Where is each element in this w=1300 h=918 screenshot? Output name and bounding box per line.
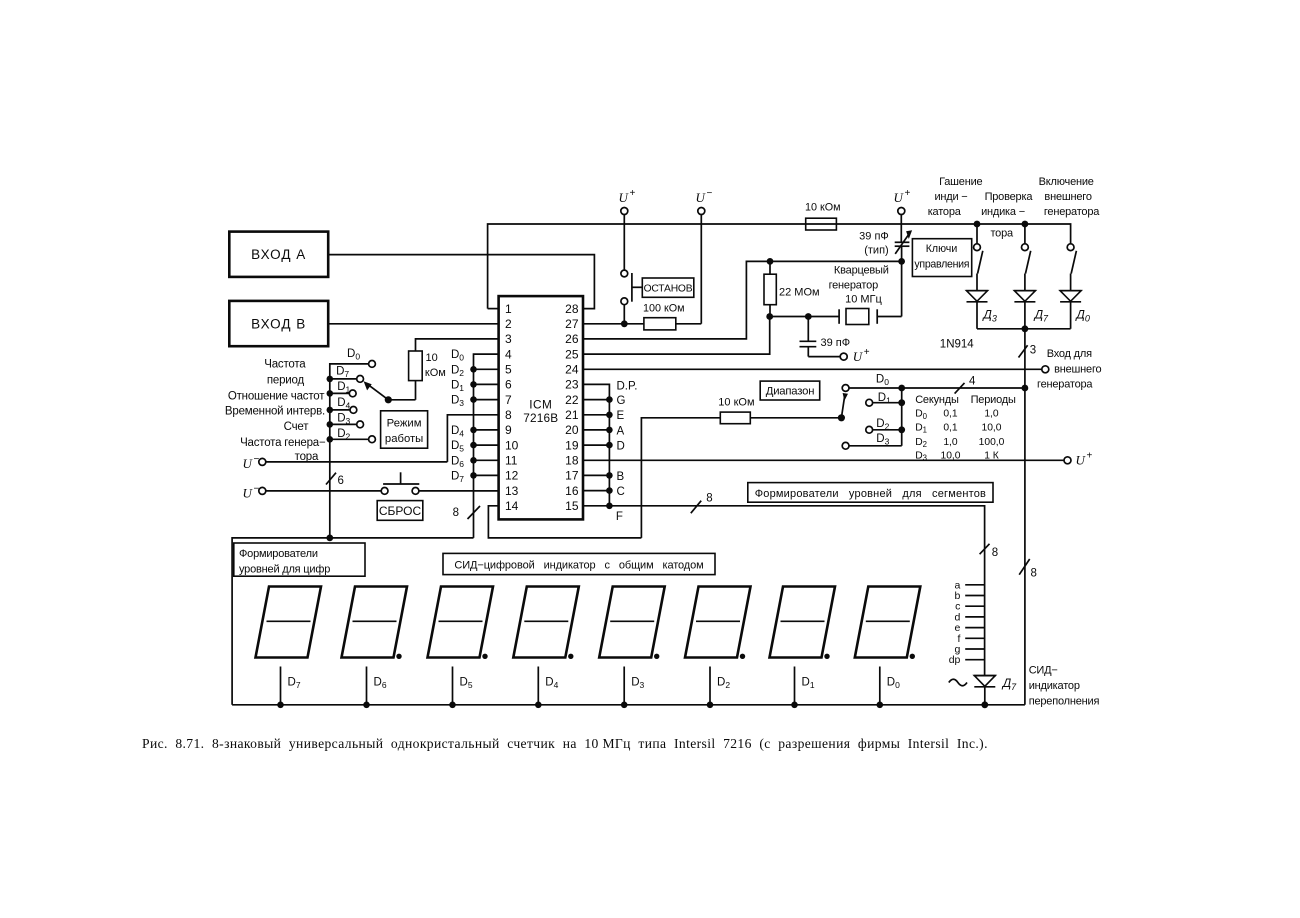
terminal U+ oscillator xyxy=(840,353,847,360)
key switch 1 xyxy=(976,224,978,244)
wire crystal right riser xyxy=(901,247,903,317)
svg-text:D3: D3 xyxy=(915,451,927,463)
svg-text:Д3: Д3 xyxy=(981,308,996,324)
svg-text:U: U xyxy=(243,456,254,471)
svg-text:СБРОС: СБРОС xyxy=(379,504,422,518)
svg-text:D3: D3 xyxy=(337,412,350,426)
svg-text:1,0: 1,0 xyxy=(943,437,958,448)
svg-text:F: F xyxy=(616,511,623,523)
switch OSTANOV contacts xyxy=(621,270,628,277)
wire pin 7 xyxy=(474,399,499,401)
wire lower node xyxy=(770,316,839,318)
svg-text:D0: D0 xyxy=(876,373,889,387)
svg-text:генератор: генератор xyxy=(829,279,879,291)
svg-text:10,0: 10,0 xyxy=(981,422,1001,433)
wire U- to pin 8 riser xyxy=(266,461,448,463)
svg-text:D1: D1 xyxy=(451,379,464,393)
svg-text:D2: D2 xyxy=(717,677,730,691)
switch SBROS actuator xyxy=(383,483,419,485)
svg-text:ВХОД В: ВХОД В xyxy=(251,317,306,332)
svg-text:Секунды: Секунды xyxy=(915,394,959,406)
svg-text:14: 14 xyxy=(505,499,519,513)
svg-text:15: 15 xyxy=(565,499,579,513)
svg-text:1,0: 1,0 xyxy=(984,409,999,420)
svg-text:D0: D0 xyxy=(915,409,927,421)
label box LED indicator xyxy=(443,553,715,574)
svg-text:−: − xyxy=(707,188,713,199)
mode wiper arrow to D7 xyxy=(367,384,389,400)
svg-text:8: 8 xyxy=(1031,568,1037,580)
svg-text:Частота генера−: Частота генера− xyxy=(240,437,326,449)
switch SBROS contacts xyxy=(381,488,388,495)
display digit D3 xyxy=(599,587,665,709)
range contact D3 xyxy=(842,442,849,449)
svg-text:100 кОм: 100 кОм xyxy=(643,303,685,315)
svg-text:D5: D5 xyxy=(460,677,473,691)
svg-text:18: 18 xyxy=(565,454,579,468)
diode D0 xyxy=(1060,290,1082,292)
label box SBROS xyxy=(377,501,423,521)
svg-text:U: U xyxy=(243,485,254,500)
svg-text:Ключи: Ключи xyxy=(926,243,958,255)
svg-text:U: U xyxy=(696,190,707,205)
display common rail xyxy=(232,704,1025,706)
wire pin 11 xyxy=(474,459,499,461)
svg-text:20: 20 xyxy=(565,423,579,437)
wire U- stem xyxy=(700,215,702,324)
svg-text:Проверка: Проверка xyxy=(985,191,1034,203)
svg-text:(тип): (тип) xyxy=(864,245,888,257)
display digit D0 xyxy=(855,587,921,709)
svg-text:D1: D1 xyxy=(802,677,815,691)
svg-text:D: D xyxy=(617,441,625,453)
svg-text:6: 6 xyxy=(338,475,344,487)
wire pin 13 from SBROS xyxy=(419,490,499,492)
svg-text:8: 8 xyxy=(992,547,998,559)
terminal U+ right xyxy=(1064,457,1071,464)
svg-text:U: U xyxy=(1076,453,1087,468)
svg-text:Гашение: Гашение xyxy=(939,176,982,188)
wire external gen bus down xyxy=(1024,329,1026,705)
wire D0 row to ext bus xyxy=(902,387,1025,389)
mode switch common bus xyxy=(330,364,372,538)
display digit D2 xyxy=(685,587,751,709)
range contact D1 xyxy=(866,399,873,406)
digit bus D0-D7 left of IC xyxy=(474,354,499,538)
svg-text:1: 1 xyxy=(505,302,512,316)
range wiper arrow to D0 xyxy=(838,414,845,421)
svg-text:Д0: Д0 xyxy=(1074,308,1089,324)
wire pin 19 xyxy=(583,444,609,446)
svg-text:+: + xyxy=(905,188,911,199)
IC pin numbers left 1-14 xyxy=(505,302,519,513)
slash 8 on ext bus xyxy=(1019,559,1029,575)
display digit D7 xyxy=(256,587,322,709)
wire pin 24 to external generator terminal xyxy=(583,368,1042,370)
label box Diapazon xyxy=(760,381,820,400)
wire pin 17 xyxy=(583,474,609,476)
svg-text:индика −: индика − xyxy=(981,206,1025,218)
svg-text:1N914: 1N914 xyxy=(940,339,974,351)
input block VXOD A xyxy=(229,232,328,277)
labels keys header column 1 xyxy=(928,176,983,218)
svg-text:U: U xyxy=(619,190,630,205)
svg-text:Кварцевый: Кварцевый xyxy=(834,264,889,276)
svg-text:D4: D4 xyxy=(451,425,464,439)
svg-text:Частота: Частота xyxy=(264,358,306,370)
svg-text:D.P.: D.P. xyxy=(617,381,638,393)
svg-text:D7: D7 xyxy=(336,366,349,380)
svg-text:Отношение частот: Отношение частот xyxy=(228,390,325,402)
slash 4 xyxy=(955,383,965,394)
slash 6 on mode bus xyxy=(326,473,336,485)
svg-text:39 пФ: 39 пФ xyxy=(859,231,889,243)
svg-text:работы: работы xyxy=(385,433,423,445)
svg-text:0,1: 0,1 xyxy=(943,422,958,433)
svg-text:D3: D3 xyxy=(631,677,644,691)
svg-text:генератора: генератора xyxy=(1044,206,1100,218)
resistor 10 kOm mode xyxy=(409,351,423,381)
svg-text:D0: D0 xyxy=(887,677,900,691)
svg-text:10,0: 10,0 xyxy=(940,451,960,462)
wire VXOD A to pin 28 xyxy=(328,255,594,309)
svg-text:D0: D0 xyxy=(451,349,464,363)
svg-text:инди −: инди − xyxy=(934,191,967,203)
svg-text:тора: тора xyxy=(990,228,1014,240)
svg-text:уровней для цифр: уровней для цифр xyxy=(239,563,330,575)
svg-text:D2: D2 xyxy=(915,437,927,449)
slash 8 on F line xyxy=(691,501,701,514)
svg-text:D3: D3 xyxy=(876,433,889,447)
svg-text:B: B xyxy=(617,471,625,483)
key switch 3 xyxy=(1067,244,1074,251)
junction 22M top xyxy=(767,258,774,265)
svg-text:кОм: кОм xyxy=(425,367,446,379)
svg-text:2: 2 xyxy=(505,317,512,331)
wire pin 16 xyxy=(583,490,609,492)
wire U- to SBROS xyxy=(266,490,381,492)
svg-text:100,0: 100,0 xyxy=(979,437,1005,448)
svg-text:D5: D5 xyxy=(451,440,464,454)
labels overflow indicator xyxy=(1029,665,1100,708)
svg-text:Д7: Д7 xyxy=(1001,676,1017,692)
wire diode bottom rail xyxy=(977,328,1071,330)
svg-text:внешнего: внешнего xyxy=(1044,191,1091,203)
wire pin 20 xyxy=(583,429,609,431)
svg-text:Периоды: Периоды xyxy=(971,394,1016,406)
svg-text:период: период xyxy=(267,374,305,386)
labels D lines left of IC xyxy=(451,349,464,484)
junction mode bus to digit line xyxy=(326,535,333,542)
svg-text:катора: катора xyxy=(928,206,962,218)
wire pin 25 riser to oscillator lower node xyxy=(583,317,770,355)
overflow diode D7 xyxy=(974,675,996,677)
svg-text:Формирователи: Формирователи xyxy=(239,548,318,560)
label box OSTANOV xyxy=(642,278,694,297)
svg-text:G: G xyxy=(617,395,626,407)
slash 3 xyxy=(1019,345,1028,357)
svg-text:7: 7 xyxy=(505,393,512,407)
svg-text:+: + xyxy=(1087,451,1093,462)
svg-text:Диапазон: Диапазон xyxy=(766,386,815,398)
wire rail to pin 1 xyxy=(488,308,499,310)
mode contact D1 xyxy=(330,392,350,394)
svg-text:D2: D2 xyxy=(451,364,464,378)
svg-text:D0: D0 xyxy=(347,348,360,362)
svg-text:D6: D6 xyxy=(451,455,464,469)
diode D3 xyxy=(966,290,988,292)
svg-text:10: 10 xyxy=(505,438,519,452)
svg-text:управления: управления xyxy=(914,259,969,271)
svg-text:1 К: 1 К xyxy=(984,451,999,462)
label box segment formers xyxy=(748,483,993,503)
svg-text:8: 8 xyxy=(505,408,512,422)
svg-text:ВХОД А: ВХОД А xyxy=(251,247,306,262)
segment rails a-dp xyxy=(949,579,985,666)
svg-text:dp: dp xyxy=(949,654,961,666)
svg-text:D1: D1 xyxy=(337,381,350,395)
wire range riser pin14 line to resistor xyxy=(641,418,720,538)
svg-text:D7: D7 xyxy=(288,677,301,691)
svg-text:26: 26 xyxy=(565,332,579,346)
svg-text:4: 4 xyxy=(505,347,512,361)
crystal 10 MHz xyxy=(838,309,840,324)
svg-text:39 пФ: 39 пФ xyxy=(821,337,851,349)
resistor 22 MOm xyxy=(769,261,771,274)
svg-text:8: 8 xyxy=(453,507,459,519)
svg-text:Режим: Режим xyxy=(387,417,422,429)
svg-text:СИД−: СИД− xyxy=(1029,665,1058,677)
label box digit formers xyxy=(234,543,365,576)
range bus xyxy=(901,388,903,446)
svg-text:D2: D2 xyxy=(337,428,350,442)
svg-text:генератора: генератора xyxy=(1037,378,1093,390)
svg-text:19: 19 xyxy=(565,438,579,452)
wire pin 22 xyxy=(583,399,609,401)
svg-text:+: + xyxy=(630,188,636,199)
svg-text:8: 8 xyxy=(706,493,712,505)
wire pin 14 jog down xyxy=(488,506,641,538)
mode contact D4 xyxy=(330,409,350,411)
range contact D2 xyxy=(866,426,873,433)
range contact D0 xyxy=(842,385,849,392)
junctions on top rail xyxy=(974,221,981,228)
svg-text:4: 4 xyxy=(969,376,976,388)
display digit D4 xyxy=(513,587,579,709)
svg-text:U: U xyxy=(853,349,864,364)
mode contact D3 xyxy=(330,423,357,425)
svg-text:D6: D6 xyxy=(374,677,387,691)
svg-text:10 МГц: 10 МГц xyxy=(845,294,882,306)
svg-text:10 кОм: 10 кОм xyxy=(718,397,754,409)
svg-text:D1: D1 xyxy=(878,392,891,406)
svg-text:22 МОм: 22 МОм xyxy=(779,286,820,298)
labels keys header column 2 xyxy=(981,191,1033,240)
labels mode list xyxy=(225,358,326,463)
wire pin 8 to U- line xyxy=(447,415,498,462)
svg-text:21: 21 xyxy=(565,408,579,422)
label box Rezhim raboty xyxy=(381,411,428,448)
svg-text:16: 16 xyxy=(565,484,579,498)
svg-text:Временной интерв.: Временной интерв. xyxy=(225,406,325,418)
labels external generator input xyxy=(1037,348,1102,390)
svg-text:E: E xyxy=(617,410,625,422)
labels segment pins xyxy=(616,381,637,523)
slash 8 on segment riser xyxy=(980,544,990,554)
wire pin 26 riser to oscillator top node xyxy=(583,261,902,339)
capacitor 39 pF bottom xyxy=(807,317,809,342)
svg-text:+: + xyxy=(864,347,870,358)
svg-text:ОСТАНОВ: ОСТАНОВ xyxy=(644,284,693,295)
svg-text:10 кОм: 10 кОм xyxy=(805,201,841,213)
label box control keys xyxy=(912,239,971,277)
display digit D5 xyxy=(428,587,494,709)
svg-text:Счет: Счет xyxy=(284,421,310,433)
svg-text:СИД−цифровой индикатор с общим: СИД−цифровой индикатор с общим катодом xyxy=(454,560,703,572)
resistor 100 kOm xyxy=(583,323,644,325)
svg-text:Рис. 8.71. 8-знаковый униве: Рис. 8.71. 8-знаковый универсальный одно… xyxy=(142,736,988,752)
junctions segment bus xyxy=(606,396,613,403)
svg-text:Д7: Д7 xyxy=(1033,308,1049,324)
svg-text:индикатор: индикатор xyxy=(1029,680,1080,692)
svg-text:25: 25 xyxy=(565,347,579,361)
wire pin 12 xyxy=(474,474,499,476)
wire U+ stem to stop switch xyxy=(623,215,625,271)
svg-text:C: C xyxy=(617,486,625,498)
svg-text:0,1: 0,1 xyxy=(943,409,958,420)
wire digit formers feed line xyxy=(232,538,473,705)
svg-text:переполнения: переполнения xyxy=(1029,696,1100,708)
mode contact D7 xyxy=(330,378,357,380)
resistor 10 kOm range xyxy=(720,412,750,424)
svg-text:3: 3 xyxy=(1030,345,1036,357)
svg-text:ICM: ICM xyxy=(529,398,552,412)
svg-text:D4: D4 xyxy=(545,677,558,691)
svg-text:28: 28 xyxy=(565,302,579,316)
wire pin 15 F line to segment formers xyxy=(583,506,985,676)
junction pin27 node xyxy=(621,320,628,327)
key switch 2 xyxy=(1024,224,1026,244)
svg-text:Вход для: Вход для xyxy=(1047,348,1092,360)
wire top rail xyxy=(488,224,1071,309)
diode D7 xyxy=(1014,290,1036,292)
svg-text:U: U xyxy=(894,190,905,205)
wire pin 3 to mode resistor xyxy=(416,339,499,351)
wire pin 6 xyxy=(474,383,499,385)
svg-text:7216В: 7216В xyxy=(523,411,558,425)
input block VXOD B xyxy=(229,301,328,346)
svg-text:27: 27 xyxy=(565,317,579,331)
wire pin 10 xyxy=(474,444,499,446)
svg-text:13: 13 xyxy=(505,484,519,498)
display digit D1 xyxy=(770,587,836,709)
svg-text:D3: D3 xyxy=(451,395,464,409)
mode contact D0 xyxy=(369,361,376,368)
wire pin 9 xyxy=(474,429,499,431)
mode contact D2 xyxy=(330,438,369,440)
svg-text:D7: D7 xyxy=(451,470,464,484)
svg-text:23: 23 xyxy=(565,378,579,392)
svg-text:A: A xyxy=(617,425,625,437)
IC ICM 7216B body xyxy=(499,296,583,519)
svg-text:внешнего: внешнего xyxy=(1054,363,1101,375)
wire VXOD B to pin 2 xyxy=(328,323,498,325)
display digit D6 xyxy=(342,587,408,709)
svg-text:11: 11 xyxy=(505,454,518,468)
svg-text:22: 22 xyxy=(565,393,579,407)
svg-text:5: 5 xyxy=(505,363,512,377)
table seconds periods xyxy=(915,394,1016,406)
switch OSTANOV actuator xyxy=(631,273,633,302)
wire pin 21 xyxy=(583,414,609,416)
svg-text:D2: D2 xyxy=(876,418,889,432)
slash 8 on digit bus xyxy=(468,506,481,519)
svg-text:Формирователи уровней для сегм: Формирователи уровней для сегментов xyxy=(755,488,986,500)
svg-text:3: 3 xyxy=(505,332,512,346)
trimmer capacitor 39 pF xyxy=(900,215,902,243)
svg-text:12: 12 xyxy=(505,469,519,483)
svg-text:Включение: Включение xyxy=(1039,176,1094,188)
junctions digit bus xyxy=(470,366,477,373)
svg-text:D4: D4 xyxy=(337,397,350,411)
wire pin 18 to U+ right xyxy=(583,459,1064,461)
segment bus right of IC xyxy=(583,384,609,505)
wire pin 5 xyxy=(474,368,499,370)
svg-text:6: 6 xyxy=(505,378,512,392)
IC pin numbers right 28-15 xyxy=(565,302,579,513)
svg-text:24: 24 xyxy=(565,363,579,377)
svg-text:9: 9 xyxy=(505,423,512,437)
svg-text:17: 17 xyxy=(565,469,579,483)
labels keys header column 3 xyxy=(1039,176,1101,218)
svg-text:D1: D1 xyxy=(915,422,927,434)
svg-text:10: 10 xyxy=(426,352,438,364)
